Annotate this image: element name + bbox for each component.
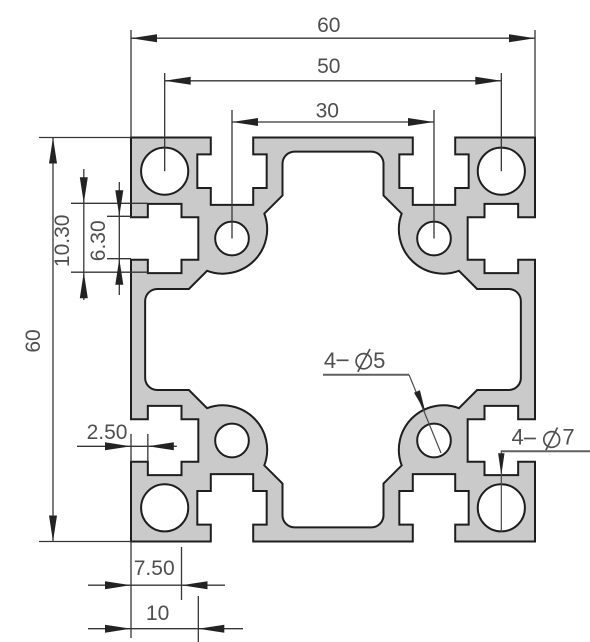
svg-text:7: 7 bbox=[562, 425, 574, 450]
arrow dim 10 left bbox=[105, 625, 131, 633]
dim line 7.50 bbox=[88, 584, 225, 586]
extension line top-right corner bbox=[534, 30, 536, 138]
svg-text:60: 60 bbox=[317, 14, 340, 37]
extension line slot full depth 10 bbox=[197, 596, 199, 642]
svg-text:30: 30 bbox=[316, 100, 339, 123]
extension line slot wide bottom bbox=[71, 271, 148, 273]
dim line 60 top bbox=[131, 37, 535, 39]
extension line slot mouth bottom bbox=[107, 258, 131, 260]
phi slash of label phi5 bbox=[358, 349, 370, 372]
leader 4-phi5 underline bbox=[323, 374, 409, 376]
arrow dim 60 top right bbox=[509, 34, 535, 42]
svg-text:6.30: 6.30 bbox=[87, 220, 110, 261]
dim line 6.30 bbox=[118, 182, 120, 295]
phi circle of label phi5 bbox=[356, 354, 371, 369]
arrow dim 50 right bbox=[475, 77, 501, 85]
extension line top-left corner bbox=[130, 30, 132, 138]
extension line into hole5 top-left bbox=[231, 110, 233, 239]
arrow dim 2.50 left bbox=[105, 442, 131, 450]
svg-text:50: 50 bbox=[317, 55, 340, 78]
arrow dim 7.50 right bbox=[182, 581, 208, 589]
dim line 2.50 bbox=[77, 445, 177, 447]
extension line into hole5 top-right bbox=[433, 110, 435, 239]
arrow dim 30 right bbox=[408, 118, 434, 126]
arrow dim 60 left bottom bbox=[49, 516, 57, 542]
svg-text:4: 4 bbox=[324, 348, 336, 373]
arrow dim 7.50 left bbox=[105, 581, 131, 589]
svg-text:4: 4 bbox=[511, 425, 523, 450]
phi circle of label phi7 bbox=[544, 432, 560, 448]
svg-text:2.50: 2.50 bbox=[87, 421, 128, 444]
arrow leader phi7 bbox=[498, 453, 504, 475]
dim line 10.30 bbox=[83, 169, 85, 300]
extension line slot wide depth 7.5 bbox=[181, 547, 183, 600]
extension line slot mouth top bbox=[107, 215, 131, 217]
extension line mouth depth 2.5 bbox=[147, 434, 149, 462]
aluminum extrusion profile body (60x60) with 8 T-slot notches, central cross cavity, 4 corner holes and 4 inner holes bbox=[131, 138, 535, 542]
arrow dim 2.50 right bbox=[148, 442, 174, 450]
arrow dim 60 left top bbox=[49, 138, 57, 164]
arrow dim 10.30 bottom bbox=[80, 272, 88, 298]
arrow dim 6.30 bottom bbox=[115, 259, 123, 285]
svg-text:10: 10 bbox=[146, 602, 169, 625]
dash of label phi5 bbox=[337, 359, 349, 361]
extension line into hole7 top-left bbox=[164, 73, 166, 171]
leader 4-phi5 diagonal to inner hole bbox=[409, 375, 441, 453]
extension line left edge across mouth bbox=[130, 434, 132, 462]
arrow leader phi5 bbox=[414, 390, 425, 412]
phi slash of label phi7 bbox=[546, 428, 558, 451]
arrow dim 50 left bbox=[165, 77, 191, 85]
leader 4-phi7 underline bbox=[501, 450, 590, 452]
arrow dim 6.30 top bbox=[115, 190, 123, 216]
extension line slot wide top bbox=[71, 202, 148, 204]
leader 4-phi7 vertical into hole bbox=[500, 451, 502, 531]
extension line left-top edge bbox=[39, 137, 131, 139]
svg-text:60: 60 bbox=[22, 329, 45, 352]
arrow dim 10 right bbox=[198, 625, 224, 633]
svg-text:5: 5 bbox=[373, 348, 385, 373]
extension line into hole7 top-right bbox=[500, 73, 502, 171]
arrow dim 30 left bbox=[232, 118, 258, 126]
svg-text:10.30: 10.30 bbox=[51, 215, 74, 268]
extension line left-bottom edge bbox=[39, 541, 131, 543]
dim line 10 bottom bbox=[88, 628, 243, 630]
dim line 50 bbox=[165, 80, 502, 82]
arrow dim 60 top left bbox=[131, 34, 157, 42]
dim line 30 bbox=[232, 121, 434, 123]
arrow dim 10.30 top bbox=[80, 177, 88, 203]
dash of label phi7 bbox=[524, 438, 536, 440]
extension line left edge below profile bbox=[130, 542, 132, 639]
svg-text:7.50: 7.50 bbox=[134, 557, 175, 580]
dim line 60 left bbox=[52, 138, 54, 542]
